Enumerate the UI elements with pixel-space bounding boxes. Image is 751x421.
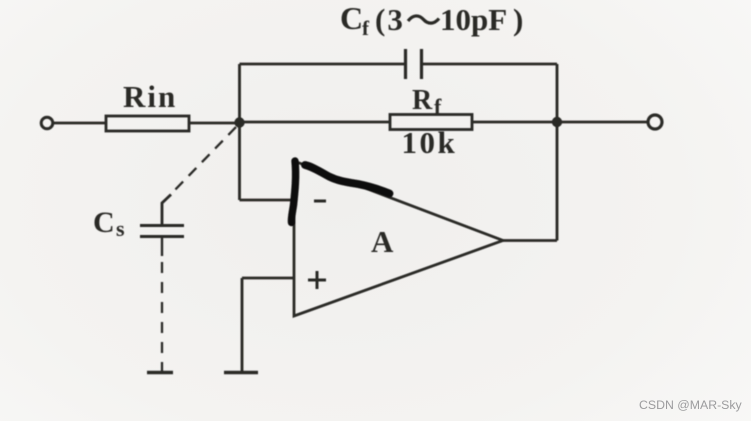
svg-text:R: R (412, 85, 433, 116)
svg-text:C: C (93, 206, 115, 239)
svg-text:f: f (434, 94, 442, 119)
svg-text:A: A (371, 224, 394, 259)
svg-text:(3: (3 (375, 2, 405, 37)
svg-text:s: s (116, 216, 125, 241)
svg-text:): ) (513, 2, 523, 37)
svg-text:10pF: 10pF (440, 2, 507, 37)
svg-text:10k: 10k (402, 125, 458, 160)
svg-text:C: C (340, 0, 363, 36)
svg-text:Rin: Rin (123, 79, 177, 114)
svg-text:f: f (362, 16, 370, 40)
svg-text:CSDN @MAR-Sky: CSDN @MAR-Sky (639, 398, 743, 412)
